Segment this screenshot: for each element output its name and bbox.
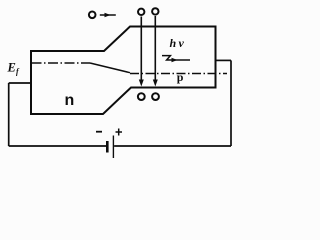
svg-text:h: h (170, 36, 177, 50)
battery plus sign (116, 129, 123, 136)
photon wavy arrow (162, 56, 190, 60)
hole symbol circle top-left (89, 12, 96, 19)
battery plate short (negative) (106, 141, 109, 153)
wire left tap (9, 82, 31, 84)
Fermi level slope (90, 63, 130, 73)
hole circle 1 (138, 93, 145, 100)
battery minus sign (96, 131, 102, 133)
battery plate long (positive) (112, 136, 114, 159)
junction arrowhead 1 (139, 80, 144, 87)
hole drift arrow line (100, 14, 116, 16)
Fermi level dash-dot left (32, 62, 91, 64)
junction field line 2 (154, 16, 156, 81)
device body outline (n-region box, diagonals, p-region box) (31, 27, 216, 115)
wire bottom right (114, 145, 231, 147)
wire right tap (216, 59, 232, 61)
svg-text:E: E (7, 60, 16, 74)
svg-text:p: p (177, 70, 184, 84)
junction arrowhead 2 (153, 80, 158, 87)
hole drift arrowhead (105, 13, 111, 18)
photon arrowhead (172, 58, 178, 63)
Fermi level dash-dot right (130, 73, 227, 75)
hole circle 2 (152, 93, 159, 100)
wire right vertical (230, 60, 232, 146)
wire left vertical (8, 83, 10, 146)
junction field line 1 (140, 17, 142, 81)
svg-text:n: n (65, 92, 75, 109)
terminal circle 1 (138, 9, 144, 15)
wire bottom left (9, 145, 107, 147)
terminal circle 2 (152, 8, 158, 14)
svg-text:ν: ν (179, 36, 185, 50)
